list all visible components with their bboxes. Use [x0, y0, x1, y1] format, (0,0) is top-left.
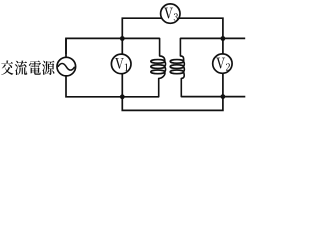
- node junction top-right: [221, 36, 226, 41]
- wire top-right segment: [180, 37, 245, 39]
- AC source sine symbol: [58, 63, 75, 70]
- voltmeter V3 circle: [161, 4, 180, 23]
- wire bottom-right segment: [181, 96, 245, 98]
- wire V3 loop top: [122, 18, 223, 38]
- voltmeter V1 circle: [111, 54, 131, 74]
- label 交流電源 (AC power source): [1, 60, 54, 75]
- node junction bottom-left: [120, 94, 125, 99]
- wire top-left segment with primary top lead corner: [66, 38, 160, 54]
- inductor primary winding: [151, 60, 165, 64]
- inductor secondary winding: [170, 60, 183, 64]
- wire V1 branch + bottom bus + V2 branch: [122, 39, 223, 111]
- label V3: [164, 8, 178, 21]
- node junction bottom-right: [221, 94, 226, 99]
- voltmeter V2 circle: [213, 54, 232, 73]
- wire AC branch + bottom-left segment: [66, 38, 159, 96]
- label V1: [115, 58, 128, 71]
- label V2: [216, 58, 230, 71]
- node junction top-left: [120, 36, 125, 41]
- AC source circle: [57, 57, 76, 76]
